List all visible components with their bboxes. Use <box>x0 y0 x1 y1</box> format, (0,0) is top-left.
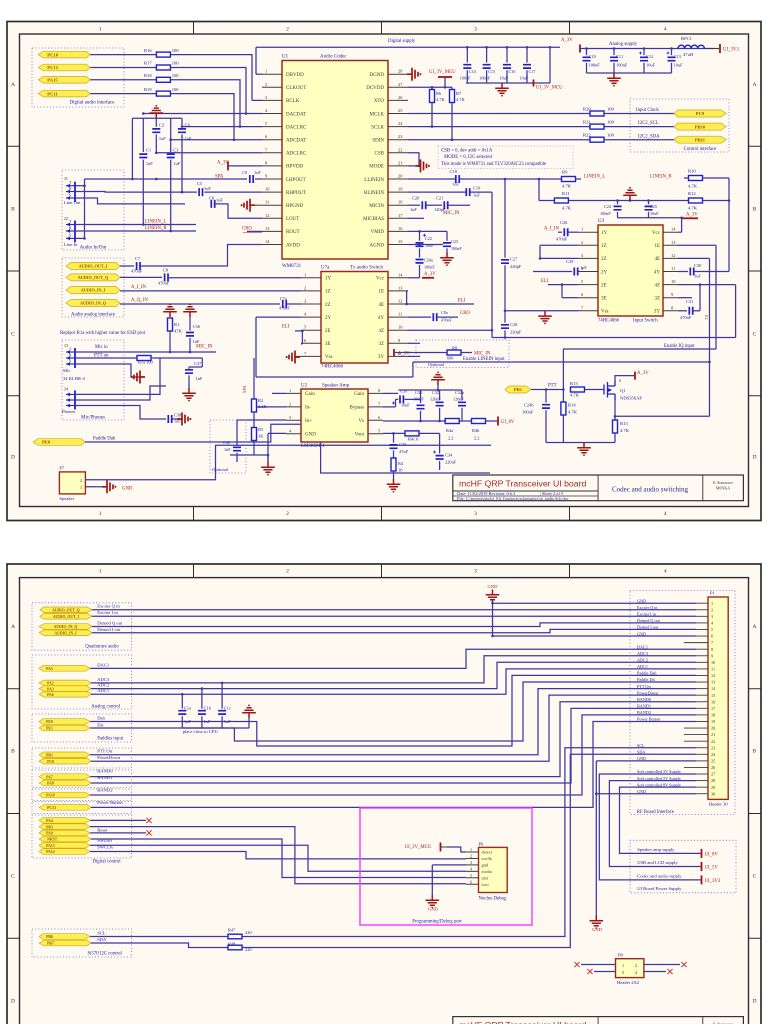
svg-text:3Y: 3Y <box>654 310 661 315</box>
svg-text:1: 1 <box>99 511 102 517</box>
svg-text:1uF: 1uF <box>580 265 587 270</box>
svg-text:Si570 I2C control: Si570 I2C control <box>88 952 123 957</box>
wire DACDAT row <box>143 113 262 115</box>
svg-text:PA15: PA15 <box>47 78 58 83</box>
IC U2 LM386M-1 Speaker Amp <box>301 389 368 442</box>
dotted box Mic/Phones <box>62 340 124 420</box>
svg-text:Power Button: Power Button <box>637 717 661 722</box>
svg-text:R4a: R4a <box>446 428 453 433</box>
svg-text:Analog supply: Analog supply <box>609 42 638 47</box>
svg-text:100nF: 100nF <box>424 265 435 270</box>
svg-text:PE0: PE0 <box>46 720 53 724</box>
svg-text:Exciter I in: Exciter I in <box>637 612 657 617</box>
capacitor C24b 100nF <box>545 390 547 403</box>
svg-text:1: 1 <box>581 227 583 232</box>
svg-text:26: 26 <box>711 765 715 770</box>
svg-text:P7: P7 <box>59 466 65 471</box>
wire R10 right to column <box>703 177 730 179</box>
wire DACLRC row <box>182 126 262 128</box>
svg-text:3: 3 <box>474 569 477 575</box>
wire U3 3Y to C31 <box>678 310 687 312</box>
svg-text:J2: J2 <box>64 216 68 221</box>
wire digital supply rail <box>256 46 560 48</box>
dotted box Digital audio interface <box>32 48 124 107</box>
dotted box Quadrature audio <box>32 603 132 650</box>
svg-text:PB10: PB10 <box>695 124 706 129</box>
svg-text:U3: U3 <box>598 219 605 224</box>
wire J2 sleeve to shield <box>75 237 85 239</box>
wire P8 pin4 <box>644 971 666 973</box>
wire PA9 nc <box>90 832 146 834</box>
port PC9 <box>674 110 726 117</box>
svg-text:21: 21 <box>398 160 402 165</box>
ground caps p2 <box>242 705 256 718</box>
svg-text:SPA: SPA <box>242 385 247 393</box>
svg-text:D: D <box>11 455 15 461</box>
IC U7a 74HC4066 Tx audio Switch <box>321 272 388 364</box>
svg-text:C22: C22 <box>425 236 432 241</box>
svg-text:LM386M-1: LM386M-1 <box>301 444 325 449</box>
port AUDIO_OUT_Q p2 <box>40 607 92 613</box>
svg-text:2: 2 <box>581 240 583 245</box>
svg-text:DACDAT: DACDAT <box>286 112 306 117</box>
svg-text:PA6: PA6 <box>47 693 54 697</box>
svg-text:RF Board Interface: RF Board Interface <box>637 810 674 815</box>
svg-text:3E: 3E <box>325 342 331 347</box>
svg-text:R12: R12 <box>688 191 696 196</box>
svg-text:3: 3 <box>474 27 477 33</box>
wire C6 to LOUT <box>215 204 262 218</box>
svg-text:RFC1: RFC1 <box>681 36 693 41</box>
svg-text:PC11: PC11 <box>47 91 58 96</box>
svg-text:D: D <box>753 455 757 461</box>
svg-text:1Y: 1Y <box>601 231 608 236</box>
svg-text:A: A <box>753 624 757 630</box>
svg-text:4.7K: 4.7K <box>562 184 572 189</box>
wire PC12 to R17 <box>90 67 156 69</box>
inductor RFC1 47uH <box>678 45 704 48</box>
svg-text:PA7: PA7 <box>46 775 53 779</box>
svg-text:GND: GND <box>305 433 316 438</box>
svg-text:R14: R14 <box>568 403 576 408</box>
wire U7a Vcc to A_3V <box>408 277 420 279</box>
svg-text:PB3: PB3 <box>46 825 53 829</box>
svg-text:C17: C17 <box>529 69 536 74</box>
svg-text:1: 1 <box>289 388 291 393</box>
svg-text:29: 29 <box>711 785 715 790</box>
ground P7 <box>102 480 115 493</box>
wire CSB to MODE <box>408 153 419 166</box>
svg-text:XTO: XTO <box>374 99 385 104</box>
page 2 margin ticks <box>193 564 195 578</box>
wire right column LINEIN_R <box>728 178 730 272</box>
svg-text:USB and LCD supply: USB and LCD supply <box>637 860 678 865</box>
svg-text:LINEIN_L: LINEIN_L <box>584 175 605 180</box>
svg-text:I2C2_SCL: I2C2_SCL <box>638 121 659 126</box>
power flag UI_8V <box>486 420 498 422</box>
port PB1 PTT <box>505 386 531 393</box>
port PE1 p2 <box>39 725 90 731</box>
svg-text:U7a: U7a <box>321 266 330 271</box>
svg-text:C20: C20 <box>412 196 420 201</box>
wire C7 to AVDD <box>140 245 262 267</box>
svg-text:4: 4 <box>664 27 667 33</box>
wire R4c to C34 <box>419 432 440 434</box>
svg-text:GND: GND <box>637 631 646 636</box>
svg-text:R10: R10 <box>688 169 696 174</box>
svg-text:19: 19 <box>711 719 715 724</box>
connector Phones jack <box>74 390 76 409</box>
svg-text:UI Board Power Supply: UI Board Power Supply <box>637 886 682 891</box>
wire DAC1 <box>90 649 696 668</box>
svg-text:This mode is WM8731 and TLV320: This mode is WM8731 and TLV320AIC23 comp… <box>441 162 546 167</box>
wire SCL left <box>90 936 228 938</box>
svg-text:A_Q_IN: A_Q_IN <box>131 298 148 303</box>
svg-text:100nF: 100nF <box>589 63 601 68</box>
svg-text:PC10: PC10 <box>47 52 58 57</box>
svg-text:680: 680 <box>447 356 453 361</box>
svg-text:1nF: 1nF <box>193 339 200 344</box>
capacitor C36 1nF <box>189 317 191 331</box>
dotted box UI Board Power Supply <box>630 840 736 893</box>
svg-text:Speaker Amp: Speaker Amp <box>322 384 350 389</box>
svg-text:R20: R20 <box>583 107 591 112</box>
svg-text:C38: C38 <box>174 413 181 418</box>
capacitor C7 470nF <box>137 262 140 270</box>
dotted box BAND group <box>32 770 132 788</box>
svg-text:Paddles input: Paddles input <box>97 736 124 741</box>
svg-text:10uF: 10uF <box>646 63 656 68</box>
svg-text:mcHF QRP Transceiver UI board: mcHF QRP Transceiver UI board <box>459 479 586 489</box>
svg-text:30: 30 <box>711 791 715 796</box>
svg-text:100: 100 <box>607 120 615 125</box>
svg-text:R16: R16 <box>144 48 152 53</box>
svg-text:C27: C27 <box>510 257 518 262</box>
port PB6 <box>39 934 90 940</box>
svg-text:74HC4066: 74HC4066 <box>598 319 620 324</box>
ground J3 sleeve <box>132 371 145 384</box>
svg-text:C4: C4 <box>185 123 191 128</box>
label MIC_IN optional <box>461 352 472 354</box>
svg-text:R9: R9 <box>562 170 568 175</box>
svg-text:SCL: SCL <box>637 743 645 748</box>
svg-text:Line Out: Line Out <box>64 200 81 205</box>
svg-text:100: 100 <box>172 73 180 78</box>
wire SPA row from jack <box>85 178 228 180</box>
resistor R16 100 <box>156 52 170 57</box>
svg-text:LINEIN_R: LINEIN_R <box>145 226 167 231</box>
resistor R4a 2.2 <box>445 419 459 424</box>
wire U7a 4Y to C8a <box>408 316 431 318</box>
svg-text:PB1: PB1 <box>46 754 53 758</box>
svg-text:Dah: Dah <box>97 715 105 720</box>
port AUDIO_IN_I p2 <box>39 630 92 636</box>
svg-text:C30: C30 <box>694 263 702 268</box>
svg-text:220: 220 <box>245 930 252 935</box>
svg-text:Input Switch: Input Switch <box>633 319 658 324</box>
resistor R12 4.7K <box>689 198 703 203</box>
wire PTT enable IQ vertical <box>562 349 564 390</box>
svg-text:RHPOUT: RHPOUT <box>286 191 306 196</box>
title block page 1 <box>453 475 744 501</box>
svg-text:U2: U2 <box>301 384 308 389</box>
svg-text:LINEIN_R: LINEIN_R <box>650 175 672 180</box>
svg-text:RLINEIN: RLINEIN <box>364 191 384 196</box>
svg-text:ELI: ELI <box>541 279 549 284</box>
svg-text:Header 2X2: Header 2X2 <box>617 980 640 985</box>
wire MCU caps bottom rail <box>466 82 550 84</box>
wire U7a 4Z to RLINEIN column <box>408 329 492 331</box>
resistor R7 4.7K <box>451 87 453 89</box>
capacitor C1 1uF <box>142 118 144 152</box>
svg-text:4E: 4E <box>378 303 384 308</box>
capacitor C17 10uF <box>526 47 528 62</box>
svg-text:A: A <box>11 624 15 630</box>
svg-text:C23: C23 <box>451 239 458 244</box>
svg-text:4Z: 4Z <box>654 283 660 288</box>
svg-text:8: 8 <box>711 647 713 652</box>
svg-text:C32: C32 <box>432 390 439 395</box>
dotted box RF Board Interface <box>630 591 735 815</box>
capacitor C11 100nF <box>613 49 615 56</box>
wire SDIN row <box>408 139 590 141</box>
svg-text:4: 4 <box>664 569 667 575</box>
svg-text:Programming/Debug port: Programming/Debug port <box>412 920 462 925</box>
svg-text:ROUT: ROUT <box>286 230 300 235</box>
wire U3 3Z stub <box>678 297 692 299</box>
wire R11 row <box>539 200 554 202</box>
port PC8 <box>39 758 91 764</box>
wire BCLK bend <box>252 99 262 101</box>
wire C27 vertical <box>504 179 506 258</box>
wire J1 sleeve <box>75 198 185 204</box>
svg-text:2Z: 2Z <box>601 257 607 262</box>
port PB1 <box>39 752 90 758</box>
svg-text:PA9: PA9 <box>46 832 53 836</box>
svg-text:C34: C34 <box>445 453 453 458</box>
svg-text:C33: C33 <box>415 390 422 395</box>
svg-text:28: 28 <box>711 778 715 783</box>
svg-text:Paddle Dah: Paddle Dah <box>93 437 116 442</box>
svg-text:1: 1 <box>711 601 713 606</box>
svg-text:C37: C37 <box>194 361 202 366</box>
svg-text:2: 2 <box>711 607 713 612</box>
svg-text:100: 100 <box>607 133 615 138</box>
svg-text:ELI: ELI <box>458 299 466 304</box>
svg-text:MICBIAS: MICBIAS <box>363 217 384 222</box>
resistor R10 4.7K <box>689 176 703 181</box>
wire ADC1 <box>91 669 696 694</box>
wire U2 In+ to C40 <box>237 419 286 421</box>
dotted box Paddles input <box>32 714 132 742</box>
svg-text:In-: In- <box>305 406 311 411</box>
transistor Q1 NDS356AP <box>604 380 615 400</box>
svg-text:BAND0: BAND0 <box>637 697 651 702</box>
wire ADC3 <box>91 656 696 683</box>
ground analog caps <box>607 73 621 86</box>
wire Enable LINEIN input <box>413 361 710 363</box>
svg-text:12: 12 <box>265 213 269 218</box>
svg-text:Mic: Mic <box>63 368 70 373</box>
svg-text:NRST: NRST <box>47 838 58 842</box>
pink box Programming/Debug port <box>360 808 532 925</box>
wire AGND row <box>408 244 443 246</box>
connector J1 Line Out <box>74 182 76 202</box>
svg-text:CRO: CRO <box>242 226 252 231</box>
wire U3 1E right <box>678 244 716 246</box>
port PB11 <box>674 136 726 143</box>
wire A_3V rail U3 <box>618 217 682 219</box>
svg-text:10uF: 10uF <box>401 403 410 408</box>
wire BAND2 <box>90 715 696 795</box>
svg-text:R21: R21 <box>583 120 591 125</box>
svg-text:1uF: 1uF <box>146 161 153 166</box>
svg-text:Vcc: Vcc <box>376 277 385 282</box>
svg-text:11: 11 <box>711 667 715 672</box>
wire ELI into U3 <box>548 284 578 286</box>
svg-text:11: 11 <box>265 200 269 205</box>
svg-text:R22: R22 <box>583 133 591 138</box>
svg-text:U1: U1 <box>282 55 289 60</box>
port PE0 Paddle Dah <box>33 439 85 446</box>
svg-text:PB7: PB7 <box>47 942 54 946</box>
svg-text:2E: 2E <box>325 329 331 334</box>
svg-text:DCVDD: DCVDD <box>366 86 384 91</box>
capacitor C24 100nF <box>617 201 619 205</box>
svg-text:Digital audio interface: Digital audio interface <box>70 101 116 106</box>
wire LINEIN_L from J2 <box>75 224 196 226</box>
connector P8 Header 2X2 <box>616 959 644 978</box>
svg-text:1nF: 1nF <box>224 447 231 452</box>
svg-text:P1: P1 <box>710 591 716 596</box>
svg-text:Audio analog interface: Audio analog interface <box>71 313 115 318</box>
wire soft 3V supply <box>599 774 700 880</box>
svg-text:10uF: 10uF <box>650 211 659 216</box>
svg-text:BAND2: BAND2 <box>97 788 113 793</box>
svg-text:3: 3 <box>474 511 477 517</box>
svg-text:Gain: Gain <box>305 392 315 397</box>
svg-text:B: B <box>11 207 15 213</box>
connector J2 Line In <box>74 221 76 243</box>
wire AUDIO_IN_I to U7a 1Z <box>120 290 301 292</box>
wire Demod Q out <box>92 623 696 627</box>
svg-text:PA14: PA14 <box>46 850 55 854</box>
page 1 sheet background <box>7 22 761 521</box>
svg-text:2: 2 <box>265 82 267 87</box>
svg-text:PB11: PB11 <box>695 137 706 142</box>
wire ADC2 <box>91 662 696 688</box>
svg-text:2Y: 2Y <box>601 270 608 275</box>
svg-text:100: 100 <box>172 87 180 92</box>
wire phones ring <box>75 386 166 400</box>
resistor R8 <box>394 352 447 354</box>
svg-text:AUDIO_OUT_Q: AUDIO_OUT_Q <box>78 275 109 280</box>
ground MCU caps <box>495 83 509 96</box>
svg-text:B: B <box>753 749 757 755</box>
svg-text:Line In: Line In <box>64 242 78 247</box>
svg-text:4.7K: 4.7K <box>688 184 698 189</box>
wire U3 Vss gnd <box>505 310 578 312</box>
wire Mic in row <box>75 351 216 353</box>
dotted box Audio analog interface <box>62 258 124 317</box>
svg-text:2.2: 2.2 <box>474 436 480 441</box>
svg-text:C: C <box>753 332 757 338</box>
svg-text:R17: R17 <box>144 61 152 66</box>
svg-text:9: 9 <box>711 653 713 658</box>
svg-text:C3: C3 <box>173 148 179 153</box>
svg-text:R11: R11 <box>562 191 570 196</box>
capacitor C30 1uF <box>690 268 693 276</box>
svg-text:AUDIO_IN_I: AUDIO_IN_I <box>54 632 77 636</box>
svg-text:4Y: 4Y <box>378 316 385 321</box>
wire P8 pin2 <box>644 964 680 966</box>
svg-text:Exciter Q in: Exciter Q in <box>637 605 658 610</box>
svg-text:S: S <box>69 360 71 364</box>
svg-text:ADC1: ADC1 <box>637 664 648 669</box>
wire digital audio net 3 <box>170 80 240 127</box>
wire Power Button <box>91 721 696 807</box>
svg-text:LLINEIN: LLINEIN <box>364 178 384 183</box>
svg-text:1E: 1E <box>654 244 660 249</box>
svg-text:SDA: SDA <box>637 750 645 755</box>
port PA4 <box>39 818 90 824</box>
svg-text:swo: swo <box>482 882 490 887</box>
svg-text:12: 12 <box>711 673 715 678</box>
svg-text:BAND1: BAND1 <box>637 704 651 709</box>
svg-text:ADC3: ADC3 <box>637 651 648 656</box>
svg-text:nrst: nrst <box>482 875 489 880</box>
svg-text:CLKOUT: CLKOUT <box>286 86 306 91</box>
svg-text:10uF: 10uF <box>520 76 529 81</box>
wire Paddle Dit p2 <box>90 682 696 741</box>
svg-text:C7: C7 <box>135 256 141 261</box>
wire soft 8V supply <box>620 787 701 853</box>
svg-text:2.2K: 2.2K <box>258 404 267 409</box>
ground U7a Vss <box>295 355 301 357</box>
svg-text:VMID: VMID <box>371 230 385 235</box>
svg-text:WM8731: WM8731 <box>282 264 302 269</box>
wire ADCLRC row <box>156 152 262 154</box>
svg-text:4.7K: 4.7K <box>620 428 630 433</box>
svg-text:1K: 1K <box>258 434 264 439</box>
svg-text:2Z: 2Z <box>325 303 331 308</box>
wire U7a 3Y stub <box>408 355 420 357</box>
svg-text:2.2: 2.2 <box>448 436 454 441</box>
wire analog supply rail <box>580 48 714 50</box>
resistor R47 220 <box>228 934 242 939</box>
svg-text:DAC1: DAC1 <box>97 662 110 667</box>
port AUDIO_OUT_I <box>66 263 120 270</box>
wire PA4 nc <box>90 819 146 821</box>
svg-text:PC8: PC8 <box>47 760 54 764</box>
wire VMID row <box>408 230 447 232</box>
svg-text:ELI: ELI <box>282 325 290 330</box>
port PA6 <box>39 692 91 698</box>
svg-text:Dit: Dit <box>97 722 104 727</box>
capacitor C22 10uF <box>419 231 421 240</box>
svg-text:Input Clock: Input Clock <box>636 108 659 113</box>
capacitor C4 1uF <box>181 118 183 127</box>
svg-text:470nF: 470nF <box>556 237 568 242</box>
capacitor C3 1uF <box>170 118 172 152</box>
svg-text:6: 6 <box>470 879 472 884</box>
wire IQ link vertical right <box>735 285 737 338</box>
svg-text:swclk: swclk <box>482 856 493 861</box>
svg-text:ADC2: ADC2 <box>637 658 648 663</box>
svg-text:UI_8V: UI_8V <box>705 852 719 857</box>
svg-text:Mic/Phones: Mic/Phones <box>81 416 105 421</box>
svg-text:Demod Q out: Demod Q out <box>637 618 661 623</box>
